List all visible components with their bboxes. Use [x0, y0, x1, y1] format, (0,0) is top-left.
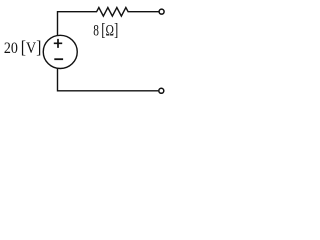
svg-text:8 [Ω]: 8 [Ω] [93, 20, 118, 40]
svg-text:20 [V]: 20 [V] [4, 37, 42, 57]
